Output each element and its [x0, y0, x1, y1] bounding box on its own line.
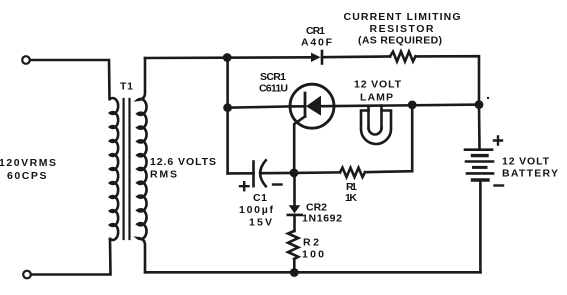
svg-text:CR1: CR1: [306, 25, 325, 37]
SCR anode wire: [321, 105, 334, 108]
battery plus sign: [494, 137, 502, 145]
svg-text:C611U: C611U: [259, 83, 288, 95]
SCR gate lead: [294, 116, 305, 173]
SCR triangle: [306, 96, 321, 116]
battery plate short 1: [473, 154, 488, 157]
node junction gate/C1/R1: [290, 169, 299, 178]
SCR cathode wire inside: [290, 105, 305, 108]
wire CR1 to current limiting resistor: [322, 55, 390, 58]
wire vertical x=227.6: [226, 58, 229, 174]
wire mid rail to C1: [228, 172, 254, 175]
bottom rail wire: [145, 271, 481, 274]
battery bottom stem: [479, 180, 482, 272]
battery plate long 3: [467, 172, 493, 175]
lamp filament U: [369, 128, 382, 135]
svg-text:12.6 VOLTS: 12.6 VOLTS: [150, 156, 216, 168]
SCR U1 circle: [290, 84, 334, 128]
diode CR1 cathode bar: [321, 51, 324, 64]
wire node to R1: [294, 171, 340, 174]
wire SCR to lamp/battery top: [334, 105, 479, 107]
node junction battery top: [475, 100, 484, 109]
battery plate short 2: [474, 166, 487, 169]
svg-text:CURRENT LIMITING: CURRENT LIMITING: [344, 11, 461, 23]
svg-text:12 VOLT: 12 VOLT: [354, 79, 402, 91]
svg-text:LAMP: LAMP: [360, 92, 393, 104]
resistor current limiting (zigzag): [390, 52, 416, 62]
lamp lead right: [380, 106, 383, 128]
diode CR2 triangle: [289, 205, 301, 213]
node junction top: [223, 53, 232, 62]
SCR cathode bar: [304, 93, 307, 116]
svg-text:RESISTOR: RESISTOR: [370, 23, 434, 35]
svg-text:1K: 1K: [345, 192, 357, 204]
capacitor C1 left plate: [252, 162, 255, 187]
transformer core: [122, 99, 124, 239]
C1 minus sign: [273, 183, 282, 185]
node junction lamp right: [408, 101, 417, 110]
svg-text:100: 100: [302, 249, 324, 261]
diode CR2 cathode bar: [288, 214, 302, 217]
C1 plus sign: [240, 182, 249, 190]
diode CR1 triangle: [311, 53, 321, 62]
capacitor C1 right curved plate: [260, 160, 266, 186]
wire top rail secondary to CR1: [145, 56, 311, 59]
wire R1 to vertical: [365, 171, 412, 172]
transformer T1 secondary winding: [138, 58, 147, 272]
battery plate long 1: [465, 148, 492, 151]
svg-text:SCR1: SCR1: [260, 71, 286, 83]
svg-text:1N1692: 1N1692: [302, 213, 342, 225]
battery minus sign: [495, 184, 504, 186]
svg-text:15V: 15V: [249, 217, 272, 229]
wire R2 to bottom rail: [293, 259, 296, 272]
node junction bottom: [290, 268, 299, 277]
svg-text:BATTERY: BATTERY: [502, 168, 558, 180]
terminal bottom-left: [23, 271, 31, 279]
wire CR2 to R2: [293, 215, 296, 231]
terminal top-left: [22, 56, 30, 64]
svg-text:C1: C1: [253, 192, 267, 204]
wire node to SCR: [228, 106, 290, 107]
wire primary bottom to terminal: [31, 239, 111, 275]
transformer T1 primary winding: [110, 98, 118, 240]
wire C1 to node: [261, 172, 294, 175]
svg-text:(AS REQUIRED): (AS REQUIRED): [358, 35, 442, 47]
lamp lead left: [367, 106, 370, 128]
resistor R2 zigzag: [288, 231, 298, 259]
battery plate long 2: [466, 160, 493, 163]
battery plate short 3: [473, 178, 489, 181]
svg-text:RMS: RMS: [150, 169, 177, 181]
battery top wire: [478, 105, 481, 149]
lamp envelope: [361, 111, 391, 145]
wire top rail to right corner down to battery node: [416, 56, 480, 104]
stray mark: [487, 97, 489, 99]
diode CR2 wire: [293, 173, 296, 205]
svg-text:T1: T1: [120, 81, 133, 93]
svg-text:12 VOLT: 12 VOLT: [502, 156, 550, 168]
wire top-left terminal to primary: [30, 60, 110, 99]
resistor R1 zigzag: [340, 168, 365, 177]
node junction scr anode wire: [223, 103, 232, 112]
wire vertical x=412: [411, 105, 414, 171]
